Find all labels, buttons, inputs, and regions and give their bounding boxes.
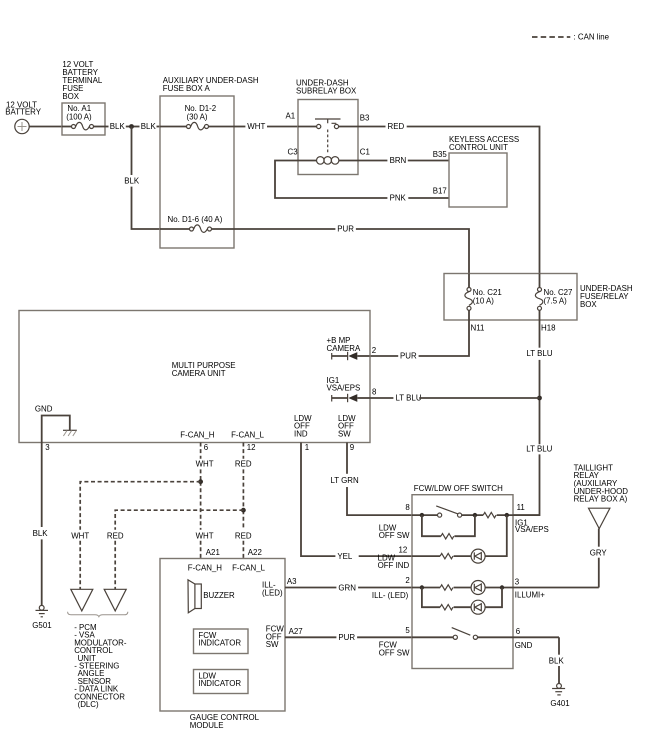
fuse No. C27 (7.5 A) [535, 274, 572, 321]
svg-text:GND: GND [35, 404, 53, 413]
multipurpose camera unit box [19, 311, 370, 443]
12 volt battery terminal fuse box [62, 60, 105, 135]
svg-text:CONTROL UNIT: CONTROL UNIT [449, 143, 508, 152]
svg-text:A3: A3 [287, 577, 297, 586]
svg-text:BLK: BLK [110, 122, 126, 131]
svg-text:G501: G501 [32, 621, 51, 630]
relay coil (subrelay) [298, 157, 358, 165]
wire pin 9 LT GRN to switch pin 8 [331, 443, 413, 516]
svg-text:N11: N11 [471, 324, 485, 333]
wire WHT to subrelay pin A1 [234, 112, 298, 131]
svg-text:CAMERA UNIT: CAMERA UNIT [172, 369, 226, 378]
relay link dashed [327, 130, 329, 155]
svg-text:B35: B35 [433, 150, 448, 159]
ground G501 [32, 605, 51, 629]
wire H18 down LT BLU [513, 320, 553, 515]
svg-text:RED: RED [235, 531, 252, 540]
connector triangle (WHT) [71, 589, 93, 611]
svg-text:BLK: BLK [549, 657, 565, 666]
svg-text:(100 A): (100 A) [66, 113, 92, 122]
svg-text:VSA/EPS: VSA/EPS [515, 525, 549, 534]
svg-text:A27: A27 [289, 627, 303, 636]
svg-text:3: 3 [45, 443, 50, 452]
svg-text:(LED): (LED) [262, 588, 283, 597]
under-dash subrelay box [296, 79, 358, 175]
fuse No. A1 (100 A) [62, 104, 105, 130]
taillight relay connector triangle [589, 508, 610, 528]
svg-text:MODULE: MODULE [190, 721, 224, 730]
svg-text:B17: B17 [433, 186, 447, 195]
svg-text:GRN: GRN [338, 583, 356, 592]
svg-text:C3: C3 [288, 147, 299, 156]
F-CAN_L dashed branch to PCM connector [107, 510, 244, 589]
svg-text:A21: A21 [206, 548, 220, 557]
svg-text:GND: GND [515, 641, 533, 650]
svg-text:B3: B3 [360, 113, 370, 122]
wire PUR A27 to switch pin 5 [285, 633, 412, 642]
camera pin labels [180, 414, 356, 452]
svg-text:12: 12 [399, 545, 408, 554]
diode pin 2 (+B MP CAMERA) [327, 336, 377, 360]
svg-text:VSA/EPS: VSA/EPS [327, 384, 361, 393]
svg-text:BLK: BLK [141, 122, 157, 131]
wire BLK pin 6 to G401 [549, 637, 565, 683]
internal GND of camera unit [35, 404, 77, 442]
pin 2 labels [372, 576, 410, 600]
PCM / VSA / DLC list [74, 623, 127, 709]
svg-text:12: 12 [247, 443, 256, 452]
svg-text:RED: RED [107, 531, 124, 540]
svg-text:LT BLU: LT BLU [527, 349, 553, 358]
svg-text:RED: RED [235, 460, 252, 469]
FCW/LDW off switch box [412, 484, 513, 669]
svg-text:BLK: BLK [124, 177, 140, 186]
svg-text:SW: SW [338, 429, 351, 438]
gauge control module box [160, 559, 285, 730]
junction node F-CAN_L [241, 508, 246, 513]
svg-text:IND: IND [294, 429, 308, 438]
svg-text:RELAY BOX A): RELAY BOX A) [574, 495, 628, 504]
F-CAN labels in gauge module [188, 563, 266, 572]
battery B1 (12 volt battery) [5, 100, 41, 133]
svg-text:YEL: YEL [337, 552, 353, 561]
fuse No. D1-6 (40 A) [160, 215, 234, 233]
svg-text:BRN: BRN [390, 156, 407, 165]
svg-text:INDICATOR: INDICATOR [198, 638, 241, 647]
pin A27 FCW OFF SW [266, 625, 303, 649]
svg-text:2: 2 [372, 346, 376, 355]
F-CAN_H dashed branch to PCM connector [71, 482, 200, 589]
svg-text:F-CAN_H: F-CAN_H [188, 563, 222, 572]
svg-text:LT GRN: LT GRN [331, 476, 360, 485]
resistor/LED branch under pin 2 row [422, 588, 502, 615]
svg-text:WHT: WHT [196, 531, 214, 540]
pin 6 labels [515, 627, 533, 650]
junction node [129, 124, 134, 129]
pin 12 labels [378, 545, 410, 570]
wire RED B3 to fuse C27 [358, 122, 540, 274]
pin 8 labels [379, 503, 411, 540]
under-dash fuse/relay box [444, 274, 633, 321]
junction nodes pin 8 row [420, 513, 424, 517]
svg-text:GRY: GRY [590, 548, 608, 557]
svg-text:6: 6 [516, 627, 521, 636]
svg-text:A22: A22 [248, 548, 262, 557]
svg-text:ILLUMI+: ILLUMI+ [515, 591, 545, 600]
svg-text:PUR: PUR [337, 225, 354, 234]
svg-text:SW: SW [266, 640, 279, 649]
svg-text:8: 8 [372, 388, 377, 397]
svg-text:1: 1 [305, 443, 309, 452]
svg-text:FUSE BOX A: FUSE BOX A [163, 84, 211, 93]
svg-text:2: 2 [405, 576, 409, 585]
pin 5 labels [379, 626, 411, 657]
svg-text:: CAN line: : CAN line [574, 33, 610, 42]
svg-text:(7.5 A): (7.5 A) [544, 297, 568, 306]
svg-text:(10 A): (10 A) [473, 297, 494, 306]
pin A3 ILL- (LED) [262, 577, 297, 597]
svg-text:FCW/LDW OFF SWITCH: FCW/LDW OFF SWITCH [414, 484, 503, 493]
wire N11 to camera pin 2 (PUR) [370, 320, 470, 360]
svg-text:(DLC): (DLC) [78, 700, 99, 709]
svg-text:BLK: BLK [33, 529, 49, 538]
svg-text:LT BLU: LT BLU [526, 445, 552, 454]
svg-text:9: 9 [350, 443, 355, 452]
svg-text:OFF SW: OFF SW [379, 648, 410, 657]
relay contact (subrelay) [298, 119, 358, 129]
svg-text:6: 6 [204, 443, 209, 452]
svg-text:3: 3 [515, 577, 520, 586]
svg-text:F-CAN_L: F-CAN_L [232, 563, 265, 572]
svg-text:11: 11 [517, 503, 525, 512]
ground G401 [550, 684, 569, 708]
svg-text:BOX: BOX [580, 300, 597, 309]
svg-text:(30 A): (30 A) [187, 112, 208, 121]
FCW indicator [194, 629, 249, 654]
pin 11 labels [515, 503, 549, 534]
svg-text:WHT: WHT [247, 122, 265, 131]
svg-text:SUBRELAY BOX: SUBRELAY BOX [296, 87, 357, 96]
taillight relay label [574, 463, 629, 503]
svg-text:BOX: BOX [62, 92, 79, 101]
wire LT BLU pin 8 to junction [370, 394, 540, 403]
svg-text:OFF SW: OFF SW [379, 531, 410, 540]
svg-text:8: 8 [405, 503, 410, 512]
switch pin 8 row: switch and resistor [412, 506, 540, 518]
svg-text:G401: G401 [550, 699, 569, 708]
wire BLK vertical to No. D1-6 [124, 127, 160, 230]
svg-text:F-CAN_H: F-CAN_H [180, 430, 214, 439]
svg-text:LT BLU: LT BLU [396, 394, 422, 403]
svg-text:5: 5 [405, 626, 410, 635]
wire C3 wrap to PNK [275, 161, 449, 203]
diode pin 8 (IG1 VSA/EPS) [327, 376, 378, 402]
wire PUR D1-6 to fuse C21 [234, 225, 469, 274]
junction node on LT BLU [537, 396, 542, 401]
F-CAN_H dashed wire (pin 6) [196, 443, 214, 559]
wire BLK to junction [105, 122, 160, 131]
svg-text:RED: RED [388, 122, 405, 131]
svg-text:PUR: PUR [338, 633, 355, 642]
svg-text:PUR: PUR [400, 351, 417, 360]
buzzer [188, 580, 235, 613]
svg-text:BATTERY: BATTERY [5, 107, 41, 116]
svg-text:No. A1: No. A1 [67, 104, 91, 113]
switch pin 2 row: resistor and LED to pin 3 [412, 581, 599, 595]
svg-text:F-CAN_L: F-CAN_L [231, 430, 264, 439]
wire BRN C1 to B35 [358, 150, 449, 165]
svg-text:INDICATOR: INDICATOR [198, 679, 241, 688]
fuse No. D1-2 (30 A) [160, 104, 234, 130]
connector triangle (RED) [104, 589, 126, 611]
switch pin 5 row: FCW off switch [412, 628, 559, 640]
legend: CAN line [532, 33, 610, 42]
resistor branch under pin 8 row [422, 515, 475, 539]
svg-text:BUZZER: BUZZER [203, 591, 235, 600]
wire GRY relay to switch pin 3 [590, 529, 608, 588]
svg-text:A1: A1 [286, 112, 296, 121]
wire GRN A3 to switch pin 2 [285, 583, 412, 592]
svg-text:No. D1-6 (40 A): No. D1-6 (40 A) [168, 215, 223, 224]
junction nodes pin 2 row [420, 585, 424, 589]
svg-text:WHT: WHT [71, 531, 89, 540]
svg-text:CAMERA: CAMERA [327, 344, 361, 353]
pin 3 labels [515, 577, 545, 599]
svg-text:C1: C1 [360, 147, 370, 156]
svg-text:H18: H18 [541, 324, 556, 333]
auxiliary under-dash fuse box A [160, 76, 259, 248]
wire pin 1 to YEL to switch pin 12 [301, 443, 412, 562]
LDW indicator [194, 670, 249, 694]
svg-text:WHT: WHT [196, 460, 214, 469]
brace under connectors [68, 612, 128, 617]
switch pin 12 row: resistor and LED [412, 515, 507, 563]
wire battery to fuse box [29, 126, 62, 128]
junction node F-CAN_H [198, 479, 203, 484]
svg-text:PNK: PNK [390, 193, 407, 202]
svg-text:ILL- (LED): ILL- (LED) [372, 591, 409, 600]
fuse No. C21 (10 A) [465, 274, 502, 321]
wire BLK pin 3 to G501 [33, 443, 49, 606]
keyless access control unit [449, 135, 519, 207]
svg-text:OFF IND: OFF IND [378, 561, 410, 570]
F-CAN_L dashed wire (pin 12) [235, 443, 252, 559]
